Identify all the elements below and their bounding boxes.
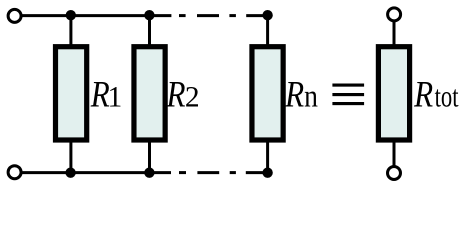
junction node dot bottom of R2 — [144, 168, 154, 178]
resistor R2 body — [134, 47, 165, 140]
equivalence symbol (triple bar) — [332, 84, 364, 106]
junction node dot top of Rn — [262, 10, 272, 20]
wire from T3 down to Rtot — [393, 21, 396, 47]
wire bottom rail right solid segment — [246, 171, 268, 174]
svg-text:n: n — [304, 78, 318, 114]
wire top rail solid segment — [22, 14, 171, 17]
junction node dot bottom of R1 — [65, 168, 75, 178]
wire from top rail down to Rn — [266, 16, 269, 46]
terminal T3 top of Rtot — [388, 8, 401, 21]
svg-text:1: 1 — [108, 82, 123, 114]
junction node dot top of R1 — [66, 10, 76, 20]
terminal T2 bottom-left open circle — [8, 166, 21, 179]
wire from R1 down to bottom rail — [69, 140, 72, 173]
label Rtot — [413, 75, 459, 116]
wire from top rail down to R2 — [148, 16, 151, 46]
label R2 — [166, 75, 200, 116]
resistor Rn body — [252, 47, 283, 140]
wire from R2 down to bottom rail — [148, 140, 151, 173]
wire from top rail down to R1 — [69, 16, 72, 46]
wire top rail right solid segment — [246, 14, 267, 17]
wire top rail dash 1 — [179, 14, 186, 17]
wire top rail dash 3 — [229, 14, 236, 17]
svg-text:R: R — [166, 75, 186, 116]
wire bottom rail dash 1 — [179, 171, 186, 174]
junction node dot top of R2 — [144, 10, 154, 20]
label Rn — [284, 75, 318, 116]
resistor R1 body — [56, 47, 87, 140]
svg-text:R: R — [413, 75, 433, 116]
terminal T1 top-left open circle — [8, 9, 21, 22]
resistor Rtot body — [378, 47, 409, 140]
svg-text:tot: tot — [435, 80, 459, 114]
terminal T4 bottom of Rtot — [388, 167, 401, 180]
wire from Rn down to bottom rail — [266, 140, 269, 173]
junction node dot bottom of Rn — [262, 168, 272, 178]
wire bottom rail dash 3 — [230, 171, 236, 174]
wire bottom rail solid segment — [22, 171, 171, 174]
svg-text:R: R — [284, 75, 304, 116]
wire top rail dash 2 — [197, 14, 219, 17]
wire bottom rail dash 2 — [197, 171, 219, 174]
wire from Rtot down to T4 — [393, 140, 396, 166]
label R1 — [90, 75, 122, 116]
svg-text:2: 2 — [185, 82, 200, 114]
